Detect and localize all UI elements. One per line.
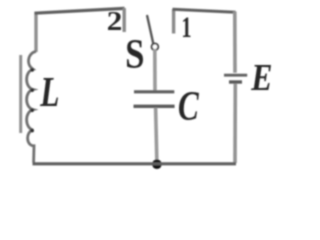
battery E positive plate (long) [224,74,247,77]
battery E negative plate (short thick) [229,80,242,83]
wire: battery bottom lead [233,84,237,163]
switch S pivot circle [152,44,159,51]
label 1 [183,18,191,37]
inductor L coil cusp knots [30,68,34,132]
label E [251,65,271,90]
label L [40,78,58,106]
wire: bottom rail [33,162,237,165]
label 2 [108,12,121,30]
capacitor C bottom plate [134,105,175,108]
switch S lever [147,16,153,44]
capacitor C top plate [134,90,174,93]
switch contact 2 stub [122,8,125,32]
wire: contact 1 to battery top corner [173,9,236,12]
wire: battery top lead [233,12,237,73]
wire: top rail (top-left corner to switch contact 2) [35,8,125,13]
inductor L core bar [19,55,22,133]
switch contact 1 stub [172,9,175,34]
label S [127,40,143,68]
wire: switch pivot to capacitor top plate [153,49,157,91]
label C [179,92,199,120]
wire: left side vertical (top-left corner down to inductor) [34,12,37,52]
junction node [152,159,162,169]
wire: capacitor bottom plate to junction [156,108,157,164]
inductor L coil [27,52,36,163]
